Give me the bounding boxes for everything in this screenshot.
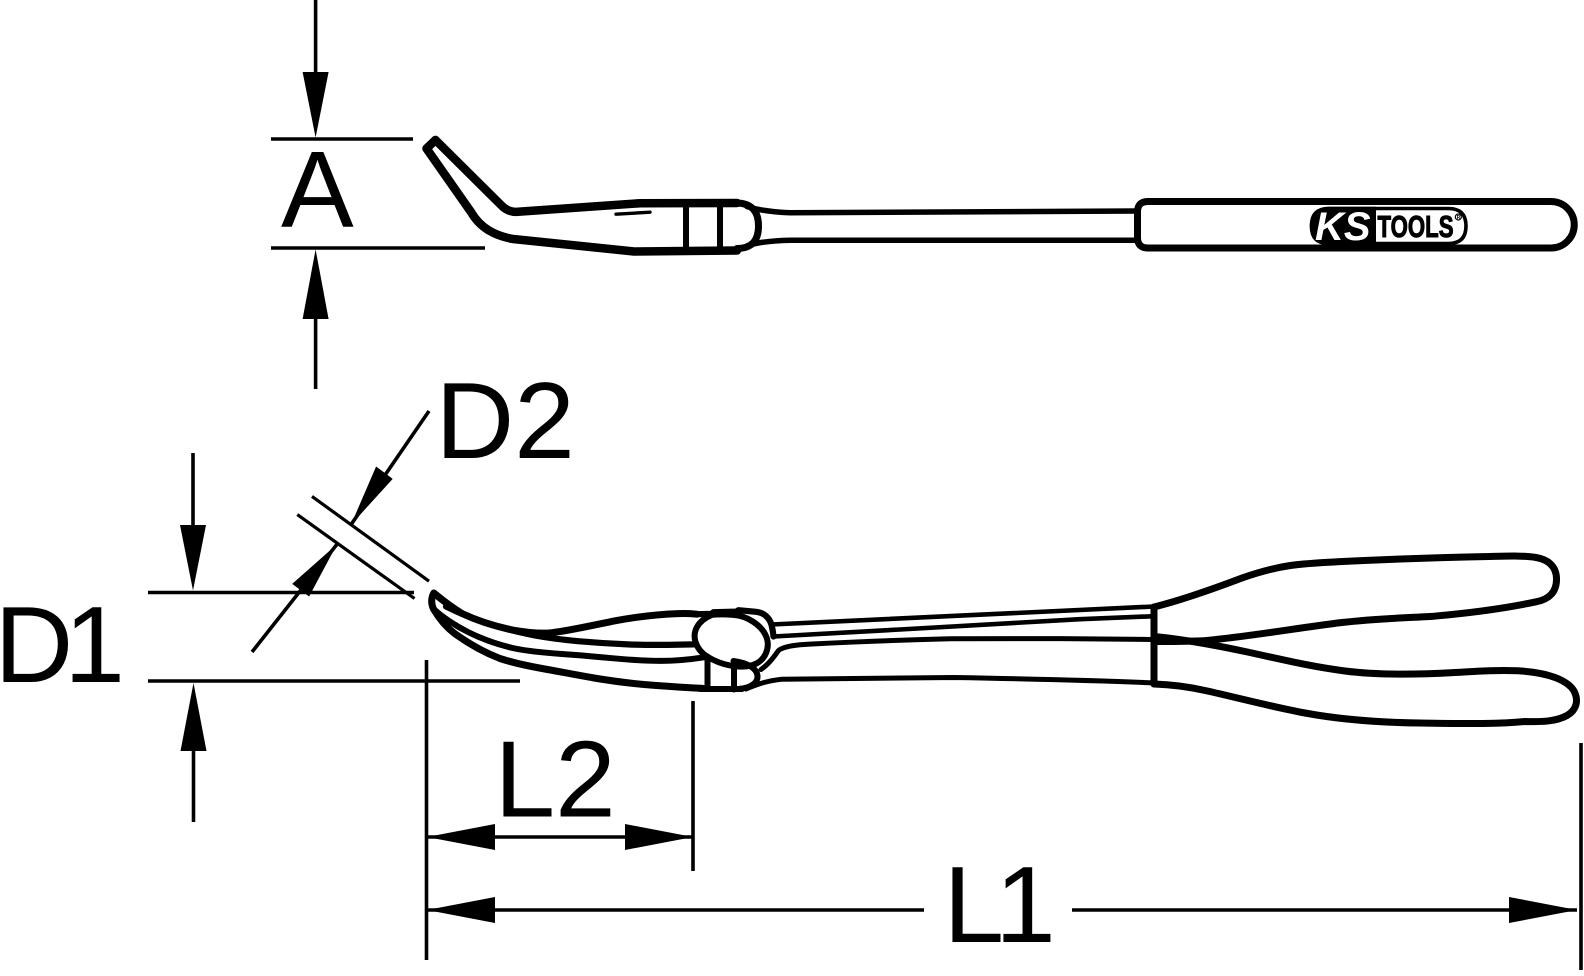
svg-text:TOOLS: TOOLS (1378, 209, 1454, 244)
svg-text:D1: D1 (0, 584, 125, 706)
svg-text:A: A (281, 129, 354, 251)
svg-text:L1: L1 (944, 844, 1056, 966)
svg-text:R: R (1457, 215, 1461, 221)
svg-text:L2: L2 (495, 719, 616, 841)
svg-text:D2: D2 (436, 360, 575, 482)
svg-text:KS: KS (1315, 205, 1371, 249)
